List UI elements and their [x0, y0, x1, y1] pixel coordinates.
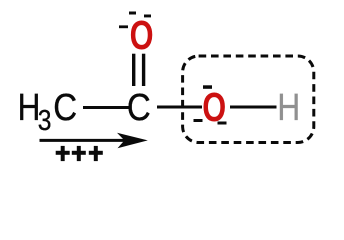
double bond C=O: [134, 54, 144, 86]
svg-text:C: C: [127, 86, 151, 129]
minus dash above hydroxyl O: [203, 85, 212, 89]
minus dash top-left of carbonyl O: [129, 12, 136, 15]
svg-text:O: O: [130, 12, 154, 58]
plus charge 1: [56, 146, 70, 161]
highlight dashed rounded box around O-H: [183, 56, 314, 143]
bond O-H: [230, 106, 277, 109]
minus dash below-right of hydroxyl O: [218, 122, 227, 125]
atom label H3C (methyl group): [18, 86, 77, 137]
arrow head: [117, 133, 148, 149]
svg-text:H: H: [277, 86, 300, 128]
svg-text:3: 3: [38, 104, 52, 136]
plus charge 3: [89, 146, 103, 161]
bond C-O (to hydroxyl): [157, 106, 202, 109]
minus dash left of carbonyl O: [119, 25, 128, 28]
bond H3C-C: [83, 106, 131, 109]
minus dash top-right of carbonyl O: [144, 15, 151, 18]
plus charge 2: [72, 146, 86, 161]
arrow shaft: [40, 139, 127, 142]
svg-text:C: C: [53, 86, 77, 129]
minus dash below-left of hydroxyl O: [194, 119, 203, 122]
